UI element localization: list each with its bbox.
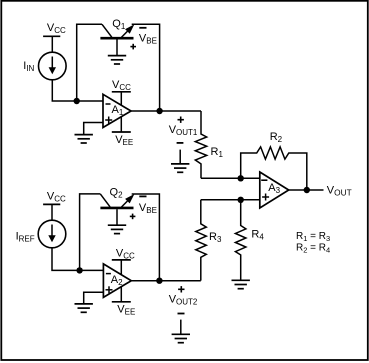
ground (Q2 base) bbox=[108, 225, 126, 233]
wire A1 output to R1 bbox=[131, 110, 201, 112]
node: A3 + input junction (R4 tap) bbox=[238, 197, 244, 203]
annotation V_OUT2 ground stem bbox=[180, 320, 182, 335]
op-amp A2 bbox=[103, 264, 131, 298]
annotation V_OUT2 plus bbox=[178, 286, 184, 292]
wire VCC bar to current source bbox=[51, 204, 53, 220]
wire Q2 emitter to A2 output node bbox=[132, 194, 160, 281]
wire R1 bottom to A3 inverting input bbox=[201, 177, 260, 179]
wire Q1 base to ground bbox=[116, 40, 118, 56]
power VCC (A1) bbox=[112, 79, 131, 105]
power VEE (A2) bbox=[112, 287, 136, 317]
annotation V_OUT1 plus bbox=[178, 117, 184, 123]
power rail VCC (top current source) bbox=[43, 22, 66, 37]
wire junction up to Q1 collector bbox=[77, 24, 102, 101]
power VCC (A2) bbox=[112, 247, 135, 275]
wire junction up to Q2 collector bbox=[80, 194, 101, 271]
resistor R3 bbox=[196, 200, 222, 281]
svg-text:R1 = R3: R1 = R3 bbox=[296, 231, 330, 243]
ground (V_OUT2 annotation) bbox=[172, 334, 190, 342]
transistor Q1 bbox=[100, 18, 134, 38]
node: junction current source / Q1 collector bbox=[74, 98, 80, 104]
wire Q2 base to ground bbox=[116, 209, 118, 225]
annotation V_OUT1 ground stem bbox=[179, 150, 181, 164]
wire Q1 emitter to A1 output node bbox=[132, 24, 160, 111]
node: A3 inverting input junction bbox=[238, 175, 244, 181]
current source I_REF bbox=[16, 220, 66, 248]
ground (A2 + input) bbox=[75, 304, 93, 312]
label V_BE polarity minus (Q2) bbox=[139, 195, 146, 197]
ground (V_OUT1 annotation) bbox=[171, 164, 189, 172]
node: A1 output junction bbox=[156, 108, 162, 114]
wire current source to A2 inverting input bbox=[52, 248, 103, 271]
wire A3 output bbox=[289, 189, 324, 191]
op-amp A3 bbox=[260, 172, 289, 208]
annotation V_OUT2 minus bbox=[178, 313, 185, 315]
node: A2 output junction bbox=[156, 278, 162, 284]
label V_BE polarity plus (bottom) bbox=[130, 44, 136, 50]
op-amp A1 bbox=[103, 94, 131, 127]
resistor R2 (feedback) bbox=[241, 131, 307, 190]
power rail VCC (bottom current source) bbox=[43, 191, 66, 205]
wire A2 output to R3 bbox=[131, 280, 201, 282]
annotation V_OUT1 minus bbox=[177, 142, 184, 144]
wire VCC bar to current source bbox=[51, 36, 53, 52]
node: junction current source / Q2 collector bbox=[76, 267, 82, 273]
resistor R1 bbox=[195, 111, 223, 178]
ground (A1 + input) bbox=[75, 135, 93, 143]
node: A3 output junction bbox=[304, 187, 310, 193]
wire current source to A1 inverting input bbox=[52, 80, 103, 101]
ground (R4) bbox=[232, 280, 250, 288]
label V_BE polarity plus (Q2) bbox=[130, 214, 136, 220]
transistor Q2 bbox=[100, 187, 134, 208]
ground (Q1 base) bbox=[108, 56, 126, 64]
wire A3 non-inverting input line bbox=[201, 199, 260, 201]
resistor R4 bbox=[235, 200, 264, 280]
label V_BE polarity minus (top) bbox=[139, 27, 146, 29]
current source I_IN bbox=[23, 52, 66, 80]
wire A1 non-inverting input to ground bbox=[84, 123, 103, 135]
svg-text:R2 = R4: R2 = R4 bbox=[296, 243, 330, 255]
wire A2 non-inverting input to ground bbox=[84, 292, 104, 304]
power VEE (A1) bbox=[112, 117, 133, 147]
